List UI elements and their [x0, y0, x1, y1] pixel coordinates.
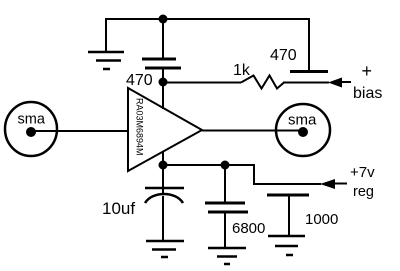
wire node B to resistor R1: [163, 82, 241, 84]
wire C3 to ground: [162, 196, 164, 241]
pin dot J2: [298, 127, 308, 137]
svg-text:1000: 1000: [305, 211, 338, 228]
svg-text:reg: reg: [353, 184, 374, 200]
op-amp U1 RA03M6894M: [128, 88, 202, 171]
connector J2 sma: [276, 104, 330, 156]
wire U1 bottom to node C: [162, 151, 164, 165]
svg-text:sma: sma: [18, 112, 46, 128]
wire left drop to ground: [105, 18, 107, 51]
ground (under C3): [146, 241, 184, 257]
capacitor C4 6800: [205, 203, 248, 212]
resistor R1 1k: [241, 76, 284, 89]
capacitor C2 470 (bias feedthrough plate): [290, 70, 328, 73]
pin dot J1: [26, 127, 36, 137]
wire output from U1 to J2: [202, 130, 303, 132]
svg-text:10uf: 10uf: [102, 199, 135, 218]
wire from C1 to node B: [162, 68, 164, 109]
svg-text:bias: bias: [353, 85, 382, 102]
wire C4 to ground: [224, 212, 226, 248]
wire input from J1 to U1: [31, 130, 128, 132]
connector J1 sma: [5, 102, 57, 156]
wire top rail: [106, 18, 309, 20]
svg-text:470: 470: [270, 47, 297, 64]
7v arrow head: [320, 179, 335, 189]
ground (top left): [88, 52, 124, 69]
wire C5 to ground: [288, 195, 290, 236]
wire node D to C4: [224, 165, 226, 203]
svg-text:RA03M6894M: RA03M6894M: [135, 98, 145, 156]
bias arrow head: [328, 78, 342, 88]
capacitor C5 1000 (feedthrough plate): [267, 194, 309, 197]
capacitor C1 470: [142, 59, 181, 68]
wire 7v arrow tail: [334, 183, 347, 185]
svg-text:+: +: [362, 61, 373, 81]
wire bias vertical drop: [308, 18, 310, 70]
node C junction dot: [159, 161, 168, 170]
node B junction dot: [159, 78, 168, 87]
svg-text:6800: 6800: [232, 220, 265, 237]
node A junction dot: [159, 15, 168, 24]
svg-text:sma: sma: [288, 112, 317, 129]
capacitor C3 10uf (polarized): [145, 188, 184, 203]
svg-text:+7v: +7v: [350, 164, 375, 181]
ground (under C4): [208, 248, 246, 264]
wire bias arrow tail: [341, 81, 351, 83]
node D junction dot: [221, 161, 230, 170]
svg-text:470: 470: [126, 72, 153, 89]
svg-text:1k: 1k: [233, 62, 251, 79]
ground (under C5): [268, 236, 305, 255]
wire bottom rail: [163, 165, 321, 184]
wire node C to C3: [162, 165, 164, 195]
wire resistor to bias arrow: [283, 82, 329, 84]
wire from top rail down to C1: [162, 19, 164, 58]
